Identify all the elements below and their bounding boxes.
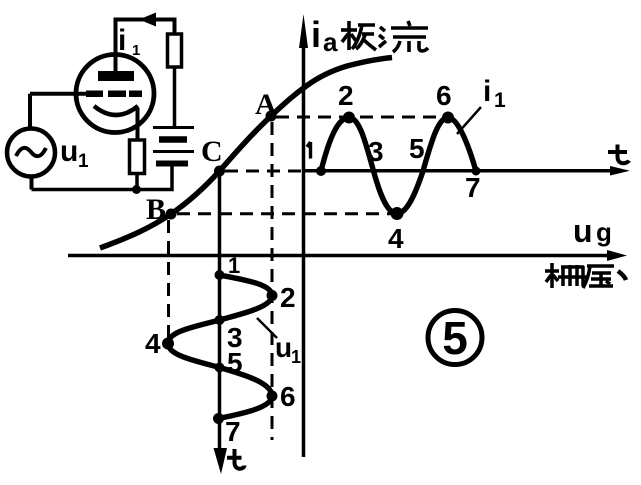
- svg-text:A: A: [255, 88, 277, 121]
- ug axis horizontal: [68, 254, 615, 258]
- battery Eb plate 1 long: [153, 126, 194, 129]
- dashed vertical from A: [271, 122, 274, 440]
- label plate-current hanzi ban: [341, 21, 376, 50]
- label u1 input leader: [257, 318, 277, 338]
- vacuum tube envelope: [76, 55, 154, 133]
- point A dot: [266, 111, 277, 122]
- point C dot: [214, 166, 225, 177]
- label i1 output leader: [457, 107, 481, 134]
- input point 4 dot: [162, 338, 174, 350]
- svg-text:3: 3: [368, 136, 384, 167]
- svg-text:2: 2: [280, 282, 296, 313]
- label comma mark: [618, 271, 626, 280]
- svg-text:6: 6: [436, 80, 452, 111]
- svg-text:5: 5: [409, 133, 425, 164]
- svg-text:5: 5: [442, 312, 468, 364]
- wire source bottom: [30, 177, 34, 190]
- output point 7 dot: [472, 167, 481, 176]
- svg-text:7: 7: [465, 172, 481, 203]
- svg-text:u: u: [573, 213, 593, 249]
- anode plate bar: [98, 71, 134, 81]
- svg-text:7: 7: [225, 416, 241, 447]
- label plate-current hanzi liu: [379, 21, 428, 52]
- input point 6 dot: [267, 391, 278, 402]
- wire top rail plate to load resistor: [116, 20, 175, 73]
- dashed vertical from B: [167, 220, 170, 342]
- dashed level A to peaks: [276, 116, 451, 119]
- svg-text:4: 4: [388, 223, 404, 254]
- input waveform u1: [168, 275, 272, 419]
- wire cathode resistor to junction: [135, 174, 139, 190]
- output point 1 dot: [316, 166, 326, 176]
- battery Eb plate 4 short: [156, 161, 188, 167]
- cathode lead: [136, 108, 140, 140]
- svg-text:1: 1: [78, 151, 89, 172]
- wire grid lead: [30, 92, 88, 96]
- resistor Ra plate load: [168, 34, 182, 67]
- svg-text:1: 1: [291, 347, 301, 367]
- dashed level C to point 1: [225, 170, 316, 173]
- battery Eb plate 2 short: [159, 136, 187, 143]
- grid dashed electrode: [86, 90, 142, 97]
- output label 1: [307, 142, 311, 159]
- cathode arc: [94, 106, 138, 115]
- ia axis arrowhead: [299, 14, 308, 48]
- input point 1 dot: [215, 270, 225, 280]
- svg-text:i: i: [311, 14, 321, 55]
- svg-text:4: 4: [145, 328, 161, 359]
- svg-text:2: 2: [338, 80, 354, 111]
- t axis arrowhead: [610, 166, 630, 176]
- input point 5 dot: [215, 363, 225, 373]
- svg-text:i: i: [483, 75, 491, 108]
- svg-text:u: u: [275, 332, 292, 363]
- ia axis vertical: [302, 30, 306, 457]
- label grid-voltage hanzi shan: [545, 263, 586, 288]
- figure number 5 circle: [428, 311, 482, 365]
- dashed level B to trough: [177, 212, 396, 215]
- svg-text:i: i: [118, 24, 126, 57]
- input point 2 dot: [267, 290, 278, 301]
- wire grid to source: [28, 94, 32, 129]
- svg-text:1: 1: [494, 89, 506, 112]
- svg-text:a: a: [323, 27, 338, 57]
- svg-text:g: g: [596, 217, 612, 247]
- label grid-voltage hanzi ya: [583, 266, 614, 288]
- svg-text:B: B: [146, 193, 166, 226]
- wire load resistor to battery: [173, 67, 177, 126]
- svg-text:u: u: [60, 135, 78, 168]
- AC source u1 circle: [7, 129, 55, 177]
- label t output axis: [608, 145, 629, 164]
- output point 6 dot: [442, 112, 454, 124]
- input t axis arrowhead: [214, 448, 228, 474]
- AC source sine symbol: [16, 148, 46, 156]
- current arrow i1: [139, 13, 156, 27]
- battery Eb plate 3 long: [153, 150, 194, 153]
- ug axis arrowhead: [607, 250, 627, 261]
- resistor Rk cathode: [130, 140, 145, 174]
- svg-text:6: 6: [280, 381, 296, 412]
- wire battery to bottom rail: [32, 166, 173, 190]
- output waveform i1: [321, 118, 476, 214]
- input t axis vertical: [218, 171, 222, 452]
- point B dot: [166, 209, 177, 220]
- input point 7 dot: [213, 413, 224, 424]
- label t input axis: [227, 449, 245, 469]
- svg-text:C: C: [201, 135, 223, 168]
- output point 4 dot: [391, 207, 404, 220]
- junction dot cathode node: [132, 185, 141, 194]
- output point 2 dot: [343, 112, 355, 124]
- svg-text:5: 5: [227, 347, 243, 378]
- input point 3 dot: [215, 315, 225, 325]
- t axis output horizontal: [304, 169, 619, 173]
- characteristic curve: [100, 58, 392, 249]
- svg-text:1: 1: [228, 253, 240, 278]
